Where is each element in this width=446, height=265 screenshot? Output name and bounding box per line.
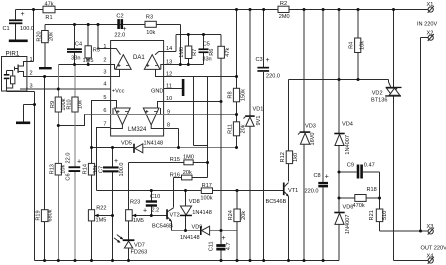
resistor R16 xyxy=(182,175,193,180)
wire C9 right lead xyxy=(363,171,380,173)
resistor R12 xyxy=(286,151,292,164)
wire pin6 pin9 through line overlay xyxy=(110,114,164,116)
svg-text:100k: 100k xyxy=(200,195,212,201)
resistor R13 xyxy=(55,163,61,175)
resistor R24 xyxy=(234,209,240,222)
wire top bus xyxy=(16,9,428,11)
wire PIR pin1 xyxy=(27,61,34,63)
resistor R7 xyxy=(185,46,192,59)
svg-text:150k: 150k xyxy=(240,89,246,101)
resistor R10 xyxy=(72,97,78,112)
wire C9 left lead xyxy=(340,171,357,173)
svg-text:R2: R2 xyxy=(280,1,287,7)
svg-text:VT2: VT2 xyxy=(170,213,180,219)
wire PIR pin2 to IC pin3 xyxy=(28,76,111,78)
svg-text:22.0: 22.0 xyxy=(66,153,72,164)
svg-text:IN 220V: IN 220V xyxy=(417,22,437,28)
svg-text:GND: GND xyxy=(151,89,163,95)
wire C1 bottom lead xyxy=(15,24,17,40)
wire VD6 bottom to bus xyxy=(338,225,340,261)
wire C8 line bottom xyxy=(322,187,324,260)
wire C3 line top xyxy=(263,10,265,67)
wire R5 top lead xyxy=(87,25,89,46)
op-amp 4 input steps xyxy=(158,102,164,109)
wire R15 R16 right riser xyxy=(207,77,209,178)
svg-text:220.0: 220.0 xyxy=(305,189,319,195)
svg-text:10k: 10k xyxy=(77,100,83,109)
svg-text:+: + xyxy=(143,207,147,214)
svg-text:8: 8 xyxy=(167,123,170,129)
svg-text:C6: C6 xyxy=(66,173,72,180)
svg-text:10k: 10k xyxy=(360,41,366,50)
svg-text:BC546B: BC546B xyxy=(152,224,173,230)
wire R3 to pin13 riser xyxy=(179,25,181,65)
wire R20 bottom lead xyxy=(44,43,46,68)
svg-text:220.0: 220.0 xyxy=(266,74,280,80)
wire pin13 net xyxy=(164,64,204,66)
op-amp 1 triangle xyxy=(116,55,132,70)
capacitor C1 xyxy=(9,19,22,21)
diode VD5 xyxy=(133,144,135,153)
svg-text:VD3: VD3 xyxy=(305,124,316,130)
capacitor C9 xyxy=(357,165,360,179)
svg-text:OUT 220V: OUT 220V xyxy=(421,246,446,252)
svg-text:C7: C7 xyxy=(99,166,105,173)
node VD5 net junctions xyxy=(90,146,93,149)
svg-text:X4: X4 xyxy=(427,253,434,259)
svg-text:PIR1: PIR1 xyxy=(6,51,20,58)
resistor R6 xyxy=(218,46,225,58)
diode VD9 xyxy=(200,226,202,235)
wire bottom common bus xyxy=(35,260,340,262)
svg-text:VD5: VD5 xyxy=(121,141,132,147)
triac VD2 xyxy=(386,87,402,88)
wire to X3 xyxy=(380,230,429,232)
svg-text:R14: R14 xyxy=(82,164,88,174)
wire pin11 stub xyxy=(164,88,182,90)
node C9 R18 junctions xyxy=(338,171,341,174)
resistor R14 xyxy=(88,163,94,175)
svg-text:R4: R4 xyxy=(349,42,355,49)
svg-text:4: 4 xyxy=(103,82,106,88)
wire pin6 to pin9 through line xyxy=(84,114,236,116)
wire R18 right lead xyxy=(366,197,379,199)
svg-text:R15: R15 xyxy=(170,157,180,163)
svg-text:C10: C10 xyxy=(150,194,160,200)
diode VD8 xyxy=(180,206,191,215)
wire C11 bottom lead xyxy=(220,250,222,260)
wire mid rail y24 xyxy=(45,24,180,26)
wire VT1 collector line R12 xyxy=(288,80,290,182)
wire pin10 stub xyxy=(164,101,222,103)
op-amp 3 triangle xyxy=(115,108,131,125)
svg-text:C3: C3 xyxy=(256,57,263,63)
PIR internal FET xyxy=(7,71,13,73)
wire ground branch xyxy=(24,104,35,106)
wire VD7 bottom lead xyxy=(128,248,130,261)
resistor R15 xyxy=(184,160,193,165)
wire VD1 line bottom xyxy=(249,127,251,261)
wire R5 bottom lead xyxy=(87,58,89,65)
ground below C1 xyxy=(9,40,28,43)
op-amp polarity marks xyxy=(117,64,159,113)
capacitor C7 xyxy=(103,166,119,168)
svg-text:1M5: 1M5 xyxy=(83,58,94,64)
svg-text:R7: R7 xyxy=(192,49,198,56)
capacitor C8 xyxy=(318,182,328,184)
svg-text:C8: C8 xyxy=(314,173,321,179)
wire C7 top lead xyxy=(112,148,114,167)
wire VD4 VD6 line xyxy=(338,10,340,134)
op-amp 1 input steps xyxy=(111,49,121,55)
svg-text:1M5: 1M5 xyxy=(133,218,144,224)
svg-text:FD263: FD263 xyxy=(131,250,148,256)
svg-text:+Vcc: +Vcc xyxy=(112,89,125,95)
wire VD5 anode to R11 xyxy=(143,147,237,149)
terminal X1 xyxy=(428,7,433,12)
wire triac gate drop xyxy=(388,80,390,83)
svg-text:2M0: 2M0 xyxy=(279,14,290,20)
wire C6 bottom line xyxy=(74,172,76,261)
wire R21 riser xyxy=(379,172,381,209)
wire triac main bottom xyxy=(393,96,395,261)
capacitor C10 xyxy=(146,200,157,202)
svg-text:470k: 470k xyxy=(353,203,365,209)
wire R23 line xyxy=(128,163,130,240)
svg-text:+: + xyxy=(77,159,81,166)
PIR sensor PIR1 box xyxy=(2,57,27,92)
op-amp 3 input steps xyxy=(111,101,117,109)
wire VD8 bottom lead xyxy=(185,216,187,231)
svg-text:9: 9 xyxy=(167,110,170,116)
wire pin14 stub xyxy=(164,51,176,53)
svg-text:+: + xyxy=(325,174,329,181)
wire PIR pin1 riser xyxy=(33,10,35,62)
node wiper junctions xyxy=(111,214,114,217)
resistor R4 xyxy=(355,38,361,53)
svg-text:R5: R5 xyxy=(93,48,100,54)
resistor R1 xyxy=(43,6,55,13)
svg-text:LM324: LM324 xyxy=(128,127,147,133)
op-amp IC DA1 box xyxy=(111,41,164,137)
wire R4 bottom lead xyxy=(357,53,359,80)
resistor R2 xyxy=(278,6,289,12)
svg-text:1M0: 1M0 xyxy=(183,155,194,161)
svg-text:VD2: VD2 xyxy=(372,90,383,96)
node pin9 junction xyxy=(235,113,238,116)
svg-text:X1: X1 xyxy=(427,2,434,8)
svg-text:VD1: VD1 xyxy=(253,107,264,113)
wire ground branch drop xyxy=(23,105,25,122)
wire C4 top lead xyxy=(74,25,76,49)
PIR internal pyro element xyxy=(6,71,8,75)
svg-text:2.2: 2.2 xyxy=(152,208,160,214)
node R15 R16 junction xyxy=(206,161,209,164)
svg-text:9V1: 9V1 xyxy=(256,116,262,126)
svg-text:1: 1 xyxy=(30,57,33,63)
ground below R20 xyxy=(39,67,52,69)
capacitor C5 xyxy=(199,48,209,50)
wire pin12 net y76 xyxy=(164,76,237,78)
wire VT2 emitter diode chain y231 xyxy=(172,230,238,232)
diode VD4 xyxy=(334,133,344,135)
terminal X3 xyxy=(428,229,433,234)
capacitor C3 xyxy=(257,67,269,69)
svg-text:2: 2 xyxy=(103,58,106,64)
svg-text:R17: R17 xyxy=(202,183,212,189)
node emitter chain junctions xyxy=(184,229,187,232)
svg-text:R11: R11 xyxy=(227,124,233,134)
svg-text:R20: R20 xyxy=(36,31,42,41)
svg-text:VD7: VD7 xyxy=(134,243,145,249)
svg-text:0.47: 0.47 xyxy=(364,163,375,169)
wire rectified rail y79 xyxy=(289,79,389,81)
node bottom bus junctions xyxy=(43,259,46,262)
svg-text:R1: R1 xyxy=(45,15,52,21)
wire pin5 riser R14 R22 line xyxy=(92,101,111,261)
svg-text:C11: C11 xyxy=(208,241,214,251)
wire VD5 net y148 xyxy=(92,147,135,149)
svg-text:R10: R10 xyxy=(66,99,72,109)
svg-text:BT136: BT136 xyxy=(371,98,387,104)
wire pin12 drop xyxy=(193,77,195,146)
wire C1 top lead xyxy=(15,10,17,20)
svg-text:C4: C4 xyxy=(75,41,82,47)
svg-text:BC546B: BC546B xyxy=(266,199,287,205)
resistor R11 xyxy=(233,122,239,136)
wire jog to R9 node xyxy=(58,115,84,126)
wire X2 X3 line xyxy=(420,38,422,232)
svg-text:22.0: 22.0 xyxy=(114,32,125,38)
wire VT2 collector riser xyxy=(173,178,175,208)
svg-text:6: 6 xyxy=(103,108,106,114)
node PIR pin3 junction xyxy=(57,88,60,91)
svg-text:1: 1 xyxy=(103,44,106,50)
svg-text:+: + xyxy=(21,11,25,18)
svg-text:7: 7 xyxy=(103,122,106,128)
wire R23 wiper to VT2 base xyxy=(133,215,167,217)
wire C10 top lead xyxy=(150,191,152,201)
wire R16 left lead xyxy=(174,177,208,179)
wire pin14 riser xyxy=(175,35,177,52)
svg-text:R9: R9 xyxy=(50,101,56,108)
resistor R5 xyxy=(85,46,91,58)
wire pin7 riser xyxy=(97,128,111,191)
svg-text:VD4: VD4 xyxy=(342,122,353,128)
wire R22 wiper xyxy=(95,215,113,217)
resistor R18 xyxy=(355,195,366,202)
wire R8 R11 line xyxy=(236,10,238,148)
wire R18 left lead xyxy=(340,197,355,199)
wire R7 bottom lead xyxy=(187,59,189,65)
svg-text:R3: R3 xyxy=(146,15,153,21)
svg-text:X3: X3 xyxy=(427,224,434,230)
GND T-bar at pin 11 xyxy=(182,79,185,96)
svg-text:R6: R6 xyxy=(209,49,215,56)
svg-text:+: + xyxy=(266,57,270,64)
wire C8 line top xyxy=(322,10,324,183)
wire R10 C6 line xyxy=(74,65,76,167)
node top bus junctions xyxy=(32,8,35,11)
wire R4 top lead xyxy=(357,10,359,39)
op-amp 2 triangle xyxy=(144,55,160,70)
node pin2 net junctions xyxy=(73,63,76,66)
wire pin1 riser xyxy=(98,25,111,49)
svg-text:VT1: VT1 xyxy=(288,188,298,194)
node PIR pin2 junction xyxy=(43,75,46,78)
svg-text:3: 3 xyxy=(103,70,106,76)
svg-text:C2: C2 xyxy=(116,13,123,19)
svg-text:1N4148: 1N4148 xyxy=(192,210,212,216)
wire pin8 stub xyxy=(164,128,179,130)
node mid rail junctions xyxy=(73,23,76,26)
svg-text:2: 2 xyxy=(30,71,33,77)
photodiode VD7 xyxy=(123,239,135,241)
wire C10 bottom lead xyxy=(150,207,152,216)
node rectifier rail junctions xyxy=(338,78,341,81)
wire VD4 to VD6 mid xyxy=(338,146,340,213)
svg-text:R24: R24 xyxy=(228,210,234,220)
wire C5 bottom lead xyxy=(203,53,205,65)
wire pin8 riser xyxy=(178,129,180,148)
wire PIR ground lead xyxy=(7,91,35,93)
capacitor C11 xyxy=(216,244,225,247)
zener VD3 xyxy=(300,131,311,133)
wire ground line riser xyxy=(34,92,36,261)
wire triac main top xyxy=(393,10,395,88)
capacitor C2 xyxy=(117,19,120,29)
op-amp 2 input steps xyxy=(155,52,164,55)
svg-text:12: 12 xyxy=(166,72,172,78)
PIR internal resistor xyxy=(11,76,15,84)
wire R19 line xyxy=(44,77,46,261)
svg-text:1N4148: 1N4148 xyxy=(144,141,164,147)
svg-text:5: 5 xyxy=(103,95,106,101)
svg-text:20k: 20k xyxy=(48,32,54,41)
wire R15 left net y163 xyxy=(129,162,208,164)
diode VD6 xyxy=(334,212,344,214)
svg-text:33n: 33n xyxy=(202,57,211,63)
svg-text:680k: 680k xyxy=(48,209,54,221)
svg-text:1N4148: 1N4148 xyxy=(180,235,200,241)
wire jog y146 xyxy=(194,145,208,147)
ground PIR branch xyxy=(16,122,30,125)
wire pin7 output net y191 xyxy=(97,190,284,192)
resistor R19 xyxy=(41,210,48,222)
transistor VT1 xyxy=(283,183,285,196)
node pin13 net junctions xyxy=(179,63,182,66)
capacitor C6 xyxy=(69,166,81,168)
terminal X2 xyxy=(428,35,433,40)
resistor R8 xyxy=(233,88,239,102)
svg-text:1N4007: 1N4007 xyxy=(345,214,351,234)
node pin7 net junctions xyxy=(150,189,153,192)
svg-text:1M0: 1M0 xyxy=(179,47,185,58)
svg-text:C5: C5 xyxy=(203,41,210,47)
svg-text:R16: R16 xyxy=(170,172,180,178)
svg-text:R22: R22 xyxy=(96,205,106,211)
svg-text:13: 13 xyxy=(166,60,172,66)
svg-text:10k: 10k xyxy=(61,164,67,173)
resistor R9 xyxy=(55,97,61,112)
wire R6 C11 line xyxy=(220,35,222,245)
node ground branch junction xyxy=(33,103,36,106)
wire VD1 line top xyxy=(249,10,251,116)
svg-text:R13: R13 xyxy=(49,164,55,174)
svg-text:3: 3 xyxy=(30,84,33,90)
trimmer R22 xyxy=(88,210,94,221)
node X2 X3 junction xyxy=(419,230,422,233)
svg-text:+: + xyxy=(222,235,226,242)
svg-text:33n: 33n xyxy=(71,56,80,62)
wire C4 bottom lead xyxy=(74,53,76,65)
wire pin2 net y64 xyxy=(58,64,110,66)
svg-text:47k: 47k xyxy=(225,47,231,56)
wire R9 R13 line xyxy=(57,65,59,261)
svg-text:C1: C1 xyxy=(3,26,10,32)
svg-text:R21: R21 xyxy=(369,210,375,220)
node pin12 net junction xyxy=(235,75,238,78)
wire triac to X4 xyxy=(394,260,429,262)
transistor VT2 xyxy=(166,209,168,219)
svg-text:DA1: DA1 xyxy=(133,55,145,61)
svg-text:4.7: 4.7 xyxy=(226,242,232,250)
wire VD3 line top xyxy=(303,10,305,132)
resistor R3 xyxy=(145,21,156,27)
svg-text:1k0: 1k0 xyxy=(293,153,299,162)
resistor R17 xyxy=(201,188,212,194)
svg-text:VD9: VD9 xyxy=(192,224,203,230)
trimmer R23 xyxy=(126,210,133,221)
wire X2 stub xyxy=(421,37,429,39)
terminal X4 xyxy=(428,258,433,263)
node y34 junctions xyxy=(187,33,190,36)
svg-text:16V0: 16V0 xyxy=(310,132,316,145)
zener VD1 xyxy=(245,115,255,117)
wire C5 top lead xyxy=(203,35,205,49)
svg-text:R8: R8 xyxy=(227,91,233,98)
wire R21 bottom lead xyxy=(379,222,381,231)
resistor R21 xyxy=(376,209,383,222)
wire R7 top lead xyxy=(187,35,189,47)
PIR pin3 stub xyxy=(20,87,27,89)
svg-text:X2: X2 xyxy=(427,31,434,37)
svg-text:20k: 20k xyxy=(240,124,246,133)
wire pin14 feedback y34 xyxy=(176,34,221,36)
svg-text:1M5: 1M5 xyxy=(96,218,107,224)
wire VT2 emitter drop xyxy=(171,222,173,231)
wire R24 line xyxy=(236,191,238,261)
svg-text:100.0: 100.0 xyxy=(20,26,34,32)
svg-text:C9: C9 xyxy=(347,163,354,169)
svg-text:20k: 20k xyxy=(241,211,247,220)
svg-text:20k: 20k xyxy=(183,170,192,176)
svg-text:VD8: VD8 xyxy=(189,199,200,205)
svg-text:R12: R12 xyxy=(280,152,286,162)
svg-text:R18: R18 xyxy=(367,187,377,193)
wire C3 line bottom xyxy=(263,72,265,261)
svg-text:11: 11 xyxy=(166,84,172,90)
svg-text:510: 510 xyxy=(382,211,388,220)
capacitor C4 xyxy=(67,48,82,50)
node R9 bottom junction xyxy=(57,124,60,127)
resistor R20 xyxy=(42,31,49,43)
svg-text:47k: 47k xyxy=(44,1,53,7)
wire R20 top lead xyxy=(44,25,46,31)
svg-text:R19: R19 xyxy=(36,210,42,220)
wire VD8 top lead xyxy=(185,191,187,207)
svg-text:R23: R23 xyxy=(130,200,140,206)
